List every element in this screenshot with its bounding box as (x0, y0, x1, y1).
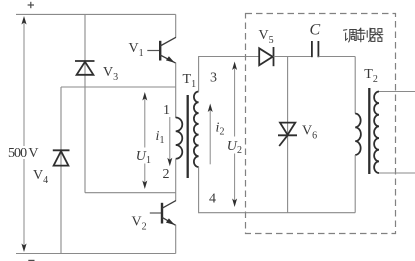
T1 secondary winding (terminals 3-4) (194, 92, 199, 168)
T2 core (368, 88, 370, 174)
node + (plus polarity mark) (28, 2, 34, 8)
wire V6 branch vertical (287, 57, 289, 213)
capacitor C (312, 41, 319, 57)
svg-text:C: C (310, 22, 321, 39)
wire horizontal y=87 (V4 top to V1 emitter node) (61, 86, 176, 88)
T1 core (187, 95, 189, 178)
调 (344, 30, 357, 43)
voltage arrow U2 (226, 62, 244, 208)
diode V3 (75, 61, 95, 75)
label 调制器 (hand-drawn glyphs) (344, 28, 383, 42)
transistor V1 (147, 14, 176, 63)
thyristor V6 (278, 123, 297, 146)
wire V4 branch vertical (60, 87, 62, 254)
svg-text:4: 4 (209, 192, 216, 207)
svg-text:2: 2 (220, 127, 225, 138)
wire top rail (16, 13, 176, 15)
制 (357, 28, 370, 42)
wire top to T2 primary (354, 57, 356, 114)
wire T1 secondary top to V5 (199, 57, 259, 92)
500 V measuring arrow line (7, 16, 40, 252)
current arrow i2 (208, 104, 213, 165)
dashed box 调制器 (modulator) (246, 14, 396, 234)
svg-text:500 V: 500 V (8, 146, 39, 161)
wire T2 primary bottom to lower bus (354, 155, 356, 213)
node - (minus polarity mark) (28, 260, 34, 261)
voltage arrow U1 (135, 92, 152, 189)
svg-text:1: 1 (163, 103, 170, 118)
current arrow i1 (167, 117, 172, 166)
器 (370, 29, 383, 42)
svg-text:2: 2 (163, 167, 170, 182)
T2 primary winding (355, 114, 361, 156)
wire V1 emitter to T1 primary (175, 63, 177, 118)
wire T1 secondary bottom to lower bus (199, 167, 356, 213)
T1 primary winding (terminals 1-2) (176, 118, 183, 159)
diode V5 (259, 47, 273, 66)
wire V5 to capacitor (274, 56, 312, 58)
wire horizontal y=192.7 (V3 bottom to V2 collector node) (85, 192, 176, 194)
diode V4 (53, 150, 70, 165)
svg-text:1: 1 (146, 155, 151, 166)
wire capacitor to T2 (318, 56, 355, 58)
svg-text:2: 2 (237, 145, 242, 156)
wire V3 branch vertical (84, 14, 86, 192)
svg-text:3: 3 (210, 71, 217, 86)
wire T2 secondary bottom output (379, 172, 415, 174)
wire bottom rail (16, 253, 176, 255)
wire T2 secondary top output (379, 91, 415, 93)
T2 secondary winding (374, 92, 379, 174)
transistor V2 (150, 159, 176, 254)
svg-text:1: 1 (160, 135, 165, 146)
